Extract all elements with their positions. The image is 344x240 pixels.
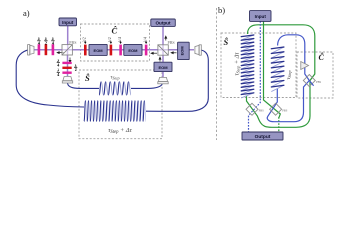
- fiber coil tau_step (short delay, panel a): [101, 82, 131, 95]
- svg-text:Input: Input: [255, 14, 267, 19]
- EOM box 1 in C-hat: [89, 44, 107, 55]
- QWP horizontal plate 2 below PBS1: [62, 72, 71, 74]
- EOM box below PBS2: [154, 62, 172, 71]
- beam: PBS1 down through waveplates to collimator: [67, 49, 69, 76]
- svg-text:λ/4: λ/4: [118, 37, 122, 42]
- blue dashed: Input down through left coupler to Output: [249, 21, 261, 132]
- label lambda/4 left of plate 3: [56, 68, 60, 77]
- svg-text:PBS: PBS: [69, 40, 76, 45]
- label lambda/2: [44, 36, 48, 46]
- svg-text:λ/2: λ/2: [83, 37, 87, 42]
- svg-text:Input: Input: [62, 20, 74, 25]
- arrow: leftward between PBS2 and side EOM: [172, 52, 177, 54]
- dashed box S-hat (panel b): [221, 33, 296, 98]
- QWP (lambda/4) vertical plate 2: [52, 44, 55, 55]
- EOM box 2 in C-hat: [124, 44, 142, 55]
- fiber: collimator below PBS1 to short coil: [68, 83, 100, 89]
- PBS fiber coupler in C-hat (panel b): [303, 75, 315, 87]
- svg-text:τStep: τStep: [110, 75, 119, 81]
- label lambda/4: [37, 36, 41, 46]
- beam: Output down to PBS2: [162, 27, 164, 51]
- arrow: downward below PBS1: [69, 58, 71, 62]
- beam: PBS2 down to EOM and collimator: [162, 50, 164, 77]
- svg-text:2: 2: [75, 67, 77, 72]
- svg-text:b): b): [218, 5, 225, 15]
- green fiber: Input line into right coupler: [264, 21, 281, 118]
- waveplate lambda/2 in C-hat at x=109.6: [110, 45, 113, 56]
- svg-text:EOM: EOM: [94, 48, 104, 53]
- label lambda/2 right of middle plate: [74, 63, 78, 72]
- green fiber: full long loop (left coil, big arc, C-hat, bottom sweep, left coupler): [247, 25, 315, 128]
- beam: Input down to PBS1: [67, 26, 69, 50]
- collimator below lower EOM (points up): [158, 77, 168, 83]
- label lambda/4 left of plate 1: [56, 58, 60, 67]
- HWP (lambda/2) vertical plate: [45, 44, 48, 55]
- svg-text:EOM: EOM: [128, 48, 138, 53]
- svg-text:4: 4: [57, 62, 59, 67]
- fiber coil tau_step+delta-tau (left vertical coil, panel b): [241, 35, 254, 98]
- arrow: upward below PBS2: [159, 58, 161, 62]
- QWP (lambda/4) vertical plate 1: [38, 44, 41, 55]
- svg-text:PBS: PBS: [316, 80, 322, 84]
- waveplate lambda/2 in C-hat at x=84.0: [84, 45, 87, 56]
- svg-text:2: 2: [45, 41, 47, 46]
- beam: horizontal main axis left (waveplates to PBS1): [32, 49, 62, 51]
- panel separator dashed line: [216, 8, 218, 140]
- Input box (panel b): [250, 11, 272, 22]
- EOM triangle modulator in C-hat (panel b): [301, 62, 309, 70]
- PBS fiber coupler left (panel b): [246, 103, 258, 115]
- collimator right of side EOM (points left): [195, 45, 201, 55]
- svg-text:PBS: PBS: [259, 109, 265, 113]
- blue fiber: full short loop (right coil, top arc, triangle, C-hat coupler, bottom sweep, right coupler): [267, 35, 309, 122]
- QWP horizontal plate 1 below PBS1: [62, 62, 71, 64]
- PBS fiber coupler right (panel b): [270, 103, 282, 115]
- arrow: leftward right of C-hat box: [152, 52, 158, 54]
- svg-text:λ/4: λ/4: [143, 37, 147, 42]
- blue crossing arm in C-hat coupler: [309, 81, 313, 86]
- svg-text:Ŝ: Ŝ: [224, 37, 229, 47]
- svg-text:PBS: PBS: [282, 109, 288, 113]
- Output box (panel a): [151, 19, 176, 26]
- svg-text:Ĉ: Ĉ: [112, 26, 118, 36]
- svg-text:PBS: PBS: [168, 40, 175, 45]
- dashed box C-hat (panel b): [297, 52, 333, 98]
- svg-text:Output: Output: [255, 134, 271, 140]
- svg-text:τStep: τStep: [286, 70, 292, 79]
- waveplate lambda/4 in C-hat at x=119.3: [119, 45, 122, 56]
- fiber coil tau_step (right vertical coil, panel b): [271, 47, 284, 92]
- fiber: long coil right end to right-side collimator: [146, 50, 208, 111]
- dashed box C-hat (panel a): [81, 24, 150, 61]
- HWP horizontal plate below PBS1: [62, 67, 71, 69]
- fiber coil tau_step + delta-tau (long delay, panel a): [86, 101, 146, 122]
- fiber: short coil to collimator below right EOM: [131, 83, 163, 89]
- arrow: leftward before PBS1: [58, 52, 65, 54]
- PBS1 cube: [62, 45, 72, 55]
- collimator below PBS1 (points up): [62, 77, 72, 83]
- svg-text:4: 4: [57, 72, 59, 77]
- svg-text:EOM: EOM: [158, 65, 168, 70]
- svg-text:Ĉ: Ĉ: [319, 52, 325, 62]
- svg-text:Ŝ: Ŝ: [85, 73, 90, 83]
- waveplate lambda/4 in C-hat at x=144.8: [145, 45, 148, 56]
- label lambda/4: [51, 36, 55, 46]
- green dashed: right coupler to Output: [278, 117, 280, 132]
- fiber: big left loop (long delay path): [16, 50, 84, 107]
- beam: PBS2 right to EOM sideways and collimator: [168, 49, 194, 51]
- svg-text:EOM: EOM: [179, 46, 184, 56]
- Output box (panel b): [242, 132, 283, 140]
- Input box (panel a): [59, 18, 77, 26]
- svg-text:λ/2: λ/2: [108, 37, 112, 42]
- beam: PBS1 through C-hat to PBS2: [62, 49, 168, 51]
- svg-text:a): a): [23, 8, 30, 18]
- dashed box S-hat (panel a): [79, 70, 162, 139]
- svg-text:Output: Output: [155, 21, 171, 26]
- EOM box right of PBS2 (vertical): [178, 42, 190, 59]
- PBS2 cube: [158, 45, 168, 55]
- arrow: upward beside Output line: [165, 37, 167, 41]
- svg-text:τStep + Δτ: τStep + Δτ: [234, 52, 241, 76]
- collimator left of waveplates (points right): [28, 45, 34, 55]
